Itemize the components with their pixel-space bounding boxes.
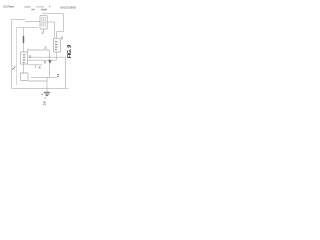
wire lower horizontal xyxy=(31,76,57,78)
wire from U1 right side xyxy=(47,21,54,23)
outer enclosure top edge xyxy=(12,19,26,21)
wire from U1 top going right xyxy=(42,13,63,15)
arrowhead on center wire xyxy=(48,60,51,63)
wire right edge down xyxy=(64,57,66,88)
ground symbol xyxy=(42,92,51,95)
block U4 xyxy=(20,73,28,81)
wire jog left xyxy=(56,31,63,33)
wire mid horizontal xyxy=(28,49,50,51)
wire into block U2 pin 2 xyxy=(53,22,55,38)
label 17 lead line on left edge xyxy=(12,67,15,70)
wire from U3 going right xyxy=(28,64,42,66)
wire bus B xyxy=(28,59,57,61)
svg-text:28: 28 xyxy=(60,36,64,39)
wire down right side xyxy=(62,14,64,32)
svg-text:26: 26 xyxy=(44,46,48,49)
wire to block U1 xyxy=(25,21,40,23)
svg-text:Sheet 9 of 9: Sheet 9 of 9 xyxy=(36,6,45,9)
ground wire vertical xyxy=(46,77,48,92)
block U2 xyxy=(53,38,60,52)
inner enclosure left edge xyxy=(15,28,17,85)
wire from U4 bottom xyxy=(28,80,47,82)
wire center vertical xyxy=(48,50,50,77)
antenna feed wire xyxy=(23,28,25,52)
inductor L1 on feed wire xyxy=(23,36,25,43)
outer enclosure bottom edge xyxy=(12,87,69,89)
wire U3 bottom xyxy=(23,64,25,73)
label 46 above wire xyxy=(31,9,34,11)
svg-text:18: 18 xyxy=(43,101,47,105)
outer enclosure left edge xyxy=(11,20,13,89)
svg-text:US 8,272,159 B2: US 8,272,159 B2 xyxy=(60,6,77,9)
svg-text:FIG. 9: FIG. 9 xyxy=(67,45,73,58)
block U1 (top connector) xyxy=(40,15,47,29)
stub below U1 xyxy=(43,29,45,33)
header small mark xyxy=(49,6,51,7)
svg-text:12: 12 xyxy=(56,74,60,78)
wire U2 bottom xyxy=(55,52,57,60)
wire stub to block U3 xyxy=(27,48,29,52)
block U3 xyxy=(20,52,27,64)
lead line to ground label xyxy=(44,97,46,99)
svg-text:Sep. 25, 2012: Sep. 25, 2012 xyxy=(24,7,32,9)
wire bus A xyxy=(28,56,66,58)
label 44 above block U1 xyxy=(41,9,47,11)
svg-text:36: 36 xyxy=(37,66,41,69)
lead line tick xyxy=(35,65,37,68)
svg-text:38: 38 xyxy=(28,55,32,58)
page background xyxy=(0,0,82,120)
wire into block U2 pin 1 xyxy=(55,32,57,39)
svg-text:U.S. Patent: U.S. Patent xyxy=(3,5,14,9)
inner enclosure top edge xyxy=(17,27,38,29)
svg-text:34: 34 xyxy=(43,60,47,63)
